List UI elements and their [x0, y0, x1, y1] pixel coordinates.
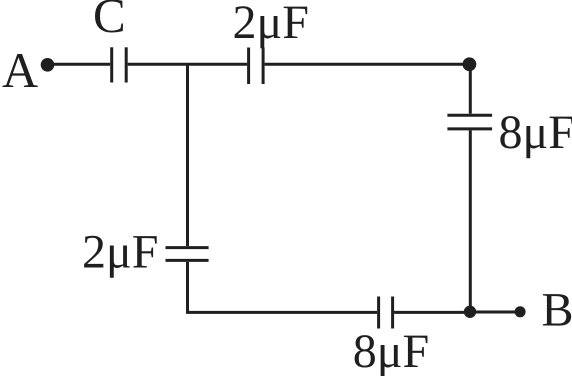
wire: 2uF right plate to top-right node dot: [265, 63, 470, 66]
terminal B dot: [515, 306, 526, 317]
svg-text:A: A: [2, 42, 38, 98]
terminal A dot: [41, 58, 55, 72]
wire: bottom junction dot to terminal B dot: [470, 311, 520, 314]
svg-text:2μF: 2μF: [233, 0, 309, 49]
wire: 8uF (bottom) right plate to junction dot: [394, 311, 470, 314]
capacitor 2uF (left) plates: [166, 248, 209, 261]
wire: 8uF (right) bottom plate down to bottom junction dot: [469, 130, 472, 311]
left branch wire: junction J1 down to 2uF (left) top plate: [186, 64, 189, 246]
wire: 2uF (left) bottom plate down to corner then right to 8uF (bottom) left plate: [188, 262, 378, 313]
svg-text:C: C: [93, 0, 126, 43]
capacitor 8uF (right) plates: [447, 115, 492, 129]
svg-text:2μF: 2μF: [82, 225, 158, 278]
svg-text:8μF: 8μF: [353, 325, 429, 376]
wire: A dot to capacitor C left plate: [48, 63, 111, 66]
wire: capacitor C right plate to junction J1: [128, 63, 188, 66]
wire: junction J1 to capacitor 2uF top left plate: [188, 63, 248, 66]
junction dot bottom-right: [464, 306, 476, 318]
wire: top-right node down to 8uF (right) top plate: [469, 64, 472, 113]
svg-text:B: B: [542, 284, 572, 337]
capacitor C plates: [112, 47, 127, 82]
node dot top-right: [463, 57, 477, 71]
capacitor 2uF (top) plates: [249, 48, 264, 85]
svg-text:8μF: 8μF: [499, 106, 572, 159]
capacitor 8uF (bottom) plates: [379, 297, 393, 329]
